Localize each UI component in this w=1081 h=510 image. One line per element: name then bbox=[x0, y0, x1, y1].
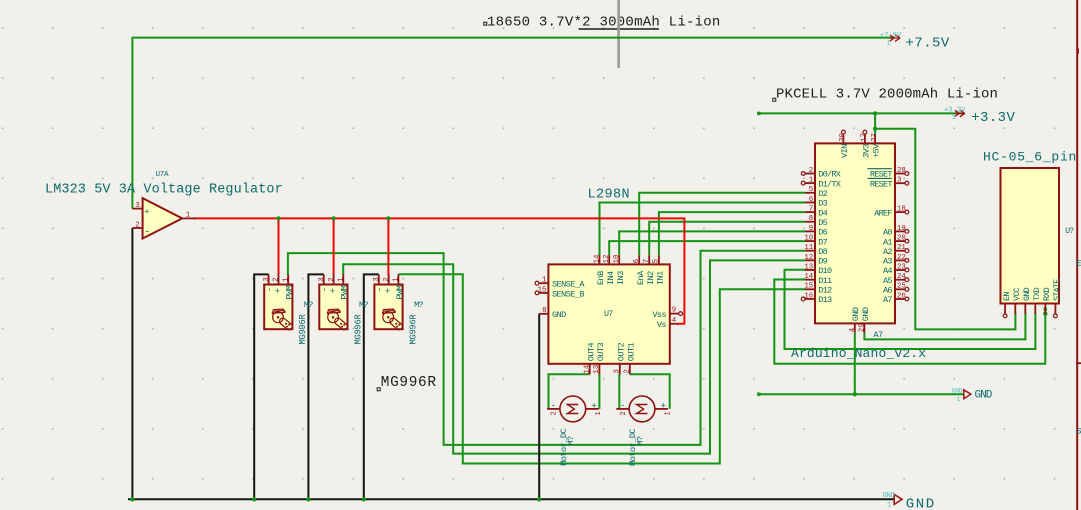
svg-text:IN4: IN4 bbox=[606, 271, 616, 285]
label MG996R (black) bbox=[377, 388, 380, 391]
wire VCC to HC-05 bbox=[875, 129, 1015, 330]
HC-05 pin RXD bbox=[1044, 304, 1046, 314]
Arduino bottom pin 29 GND bbox=[863, 323, 865, 332]
svg-text:GND: GND bbox=[952, 388, 963, 395]
wire D12 to servo3 PWM bbox=[398, 274, 805, 463]
svg-text:A5: A5 bbox=[883, 276, 892, 286]
svg-text:1: 1 bbox=[542, 277, 547, 285]
svg-text:1: 1 bbox=[338, 277, 346, 282]
svg-text:MG996R: MG996R bbox=[381, 375, 437, 391]
Arduino left pin 1 D1/TX bbox=[805, 182, 815, 184]
black GND rail bottom bbox=[128, 498, 894, 500]
wire D5 to IN2 bbox=[649, 222, 805, 255]
wire OUT2 to motor2 minus bbox=[618, 374, 620, 409]
Arduino left pin 12 D9 bbox=[805, 259, 815, 261]
svg-text:3: 3 bbox=[263, 277, 271, 281]
L298N bottom pin 13 OUT3 bbox=[598, 364, 600, 375]
wire D4 to IN1 bbox=[659, 212, 805, 255]
L298N top pin 14 EnB bbox=[599, 255, 601, 264]
svg-text:24: 24 bbox=[897, 273, 906, 281]
motor 2 pin 2 (-) bbox=[616, 408, 629, 410]
svg-text:IN2: IN2 bbox=[646, 271, 656, 285]
wire GND horizontal (to GND port) bbox=[759, 393, 963, 395]
svg-text:1: 1 bbox=[186, 211, 191, 219]
svg-text:1: 1 bbox=[887, 501, 891, 509]
svg-text:-: - bbox=[375, 287, 385, 292]
Arduino top pin 17 3V3 bbox=[864, 134, 866, 143]
svg-text:+: + bbox=[385, 287, 390, 297]
Arduino right pin 22 A3 bbox=[895, 259, 905, 261]
svg-text:3V3: 3V3 bbox=[862, 144, 872, 158]
svg-text:VIN: VIN bbox=[840, 144, 850, 158]
svg-text:3: 3 bbox=[373, 277, 381, 281]
svg-text:1: 1 bbox=[887, 40, 891, 48]
Arduino right pin 28 RESET bbox=[895, 173, 905, 175]
svg-text:D7: D7 bbox=[818, 237, 827, 247]
Arduino left pin 13 D10 bbox=[805, 269, 815, 271]
HC-05 pin GND bbox=[1024, 304, 1026, 314]
svg-text:S: S bbox=[1077, 427, 1081, 437]
svg-text:D2: D2 bbox=[818, 189, 827, 199]
svg-text:+7.5V: +7.5V bbox=[880, 32, 902, 40]
svg-text:4: 4 bbox=[672, 317, 677, 325]
svg-text:2: 2 bbox=[551, 411, 559, 415]
L298N top pin 6 EnA bbox=[638, 255, 640, 264]
Arduino left pin 15 D12 bbox=[805, 288, 815, 290]
svg-text:17: 17 bbox=[861, 133, 869, 142]
svg-text:D1/TX: D1/TX bbox=[818, 179, 840, 189]
svg-text:HC-05_6_pin: HC-05_6_pin bbox=[983, 149, 1077, 164]
red drop to servo2 + bbox=[333, 218, 335, 275]
L298N right pin 9 Vss bbox=[670, 313, 679, 315]
servo 2 pin 1 PWM bbox=[342, 274, 344, 284]
svg-text:18650 3.7V*2 3000mAh Li-ion: 18650 3.7V*2 3000mAh Li-ion bbox=[487, 15, 721, 31]
svg-text:3: 3 bbox=[897, 177, 901, 185]
wire D8 to servo1 PWM bbox=[288, 251, 805, 445]
svg-text:A7: A7 bbox=[883, 295, 892, 305]
svg-text:15: 15 bbox=[804, 283, 813, 291]
servo 1 pin 2 bbox=[278, 274, 280, 284]
svg-text:13: 13 bbox=[804, 263, 813, 271]
L298N bottom pin 3 OUT2 bbox=[619, 364, 621, 375]
svg-text:3: 3 bbox=[318, 277, 326, 281]
HC-05 body bbox=[1001, 168, 1060, 304]
Arduino left pin 10 D7 bbox=[805, 240, 815, 242]
svg-text:D5: D5 bbox=[818, 218, 827, 228]
Arduino left pin 7 D4 bbox=[805, 211, 815, 213]
svg-text:25: 25 bbox=[897, 283, 906, 291]
svg-text:TXD: TXD bbox=[1032, 287, 1042, 301]
wire OUT4 to motor1 minus bbox=[549, 374, 590, 409]
L298N top pin 10 IN3 bbox=[618, 255, 620, 264]
svg-text:U7: U7 bbox=[604, 309, 613, 319]
svg-text:VCC: VCC bbox=[1012, 287, 1022, 301]
svg-text:L298N: L298N bbox=[588, 188, 631, 203]
right edge pin stub bbox=[1076, 362, 1081, 364]
svg-text:GND: GND bbox=[851, 307, 861, 321]
svg-text:OUT2: OUT2 bbox=[616, 343, 626, 362]
svg-text:-: - bbox=[551, 400, 557, 411]
Arduino right pin 26 A7 bbox=[895, 298, 905, 300]
wire +7.5V net (green) bbox=[132, 38, 894, 209]
motor 2 pin 1 (+) bbox=[655, 408, 668, 410]
Arduino top pin 27 +5V bbox=[874, 134, 876, 143]
svg-text:A4: A4 bbox=[883, 266, 892, 276]
servo 1 pin 1 PWM bbox=[287, 274, 289, 284]
junction +3.3V/+5V bbox=[873, 111, 877, 115]
svg-text:6: 6 bbox=[809, 196, 813, 204]
svg-text:GND: GND bbox=[1022, 287, 1032, 301]
svg-text:OUT3: OUT3 bbox=[596, 343, 606, 362]
svg-text:28: 28 bbox=[897, 167, 906, 175]
Arduino left pin 8 D5 bbox=[805, 221, 815, 223]
svg-text:-: - bbox=[320, 287, 330, 292]
Arduino left pin 14 D11 bbox=[805, 279, 815, 281]
svg-text:Motor_DC: Motor_DC bbox=[628, 429, 638, 466]
motor Motor_DC M? #2 bbox=[629, 396, 655, 422]
Arduino right pin 20 A1 bbox=[895, 240, 905, 242]
wire GND vertical from Arduino pin4 bbox=[854, 333, 856, 394]
svg-text:+5V: +5V bbox=[872, 143, 882, 158]
svg-text:RXD: RXD bbox=[1042, 287, 1052, 301]
svg-text:2: 2 bbox=[273, 277, 281, 281]
svg-text:A1: A1 bbox=[883, 237, 892, 247]
wire D2 to EnA bbox=[639, 193, 805, 255]
junction red bus 3 bbox=[386, 216, 390, 220]
wire +3.3V net (green) bbox=[759, 112, 965, 114]
svg-text:Arduino_Nano_v2.x: Arduino_Nano_v2.x bbox=[791, 346, 926, 361]
servo MG996R M? #1 body bbox=[264, 285, 292, 330]
wire D6 to IN3 bbox=[619, 231, 805, 255]
svg-text:1: 1 bbox=[393, 277, 401, 282]
HC-05 pin EN bbox=[1004, 304, 1006, 314]
svg-text:Vss: Vss bbox=[652, 310, 666, 320]
Arduino Nano body bbox=[815, 143, 895, 323]
red bus from op-amp output bbox=[194, 218, 684, 323]
svg-text:GND: GND bbox=[552, 310, 566, 320]
svg-text:27: 27 bbox=[871, 133, 879, 142]
power port GND (bottom) bbox=[894, 494, 902, 504]
svg-text:EnB: EnB bbox=[596, 271, 606, 285]
svg-text:9: 9 bbox=[809, 225, 813, 233]
svg-text:+: + bbox=[660, 400, 666, 411]
Arduino right pin 25 A6 bbox=[895, 288, 905, 290]
svg-text:EN: EN bbox=[1002, 292, 1012, 301]
op-amp pin 1 output bbox=[182, 217, 196, 219]
wire GND Arduino pin29 to HC-05 GND bbox=[864, 313, 1025, 339]
servo 2 pin 2 bbox=[333, 274, 335, 284]
svg-text:PWM: PWM bbox=[285, 285, 295, 299]
svg-text:M?: M? bbox=[414, 300, 423, 310]
svg-text:+: + bbox=[591, 400, 597, 411]
title text 18650 battery bbox=[484, 22, 487, 25]
svg-text:A6: A6 bbox=[883, 286, 892, 296]
svg-text:D12: D12 bbox=[818, 286, 832, 296]
svg-text:2: 2 bbox=[383, 277, 391, 281]
svg-text:U7A: U7A bbox=[156, 171, 170, 179]
svg-text:10: 10 bbox=[804, 234, 813, 242]
svg-text:8: 8 bbox=[809, 215, 813, 223]
svg-text:2: 2 bbox=[809, 167, 813, 175]
junction +5V/VCC bbox=[873, 127, 877, 131]
black wire servo2 pin3 bbox=[308, 274, 323, 499]
servo 3 horn icon bbox=[382, 309, 404, 331]
svg-text:-: - bbox=[265, 287, 275, 292]
Arduino top pin 30 VIN bbox=[842, 134, 844, 143]
svg-text:+7.5V: +7.5V bbox=[906, 36, 950, 52]
black wire L298N GND pin8 bbox=[538, 314, 540, 500]
servo 3 pin 2 bbox=[388, 274, 390, 284]
servo 3 pin 3 bbox=[378, 274, 380, 284]
svg-text:3: 3 bbox=[135, 202, 139, 210]
svg-text:D0/RX: D0/RX bbox=[818, 170, 840, 180]
svg-text:STATE: STATE bbox=[1052, 279, 1062, 301]
motor Motor_DC M? #1 bbox=[560, 396, 586, 422]
Arduino right pin 23 A4 bbox=[895, 269, 905, 271]
wire +5V feed bbox=[874, 113, 876, 134]
black wire op-amp pin2 to GND rail bbox=[131, 228, 133, 499]
title text PKCELL battery bbox=[773, 98, 776, 101]
svg-text:9: 9 bbox=[672, 307, 676, 315]
svg-text:30: 30 bbox=[839, 133, 847, 142]
svg-text:4: 4 bbox=[849, 327, 857, 332]
svg-text:Motor_DC: Motor_DC bbox=[559, 429, 569, 466]
svg-text:LM323 5V 3A Voltage Regulator: LM323 5V 3A Voltage Regulator bbox=[45, 183, 283, 198]
L298N top pin 12 IN4 bbox=[608, 255, 610, 264]
motor 1 pin 2 (-) bbox=[547, 408, 560, 410]
Arduino right pin 3 RESET bbox=[895, 182, 905, 184]
motor 1 pin 1 (+) bbox=[586, 408, 599, 410]
svg-text:M?: M? bbox=[635, 436, 645, 446]
black wire servo3 pin3 bbox=[364, 274, 379, 499]
svg-text:A7: A7 bbox=[873, 330, 883, 340]
wire D11 to RXD bbox=[774, 280, 1045, 364]
Arduino right pin 24 A5 bbox=[895, 279, 905, 281]
servo 2 pin 3 bbox=[323, 274, 325, 284]
Arduino left pin 16 D13 bbox=[805, 298, 815, 300]
svg-text:3: 3 bbox=[614, 369, 622, 373]
svg-text:M?: M? bbox=[566, 436, 576, 446]
svg-text:19: 19 bbox=[897, 225, 906, 233]
svg-text:D13: D13 bbox=[818, 295, 832, 305]
svg-text:2: 2 bbox=[624, 369, 632, 373]
servo MG996R M? #3 body bbox=[374, 285, 402, 330]
svg-text:AREF: AREF bbox=[874, 208, 892, 218]
svg-text:1: 1 bbox=[664, 411, 672, 415]
svg-text:D6: D6 bbox=[818, 228, 827, 238]
Arduino bottom pin 4 GND bbox=[854, 323, 856, 332]
L298N bottom pin 2 OUT1 bbox=[629, 364, 631, 375]
L298N right pin 4 Vs bbox=[670, 323, 679, 325]
svg-text:14: 14 bbox=[584, 364, 592, 373]
junction RXD bbox=[1043, 312, 1047, 316]
svg-text:Vs: Vs bbox=[657, 320, 667, 330]
svg-text:26: 26 bbox=[897, 292, 906, 300]
svg-text:20: 20 bbox=[897, 235, 906, 243]
svg-text:1: 1 bbox=[952, 114, 956, 122]
power port GND (mid) bbox=[964, 390, 971, 399]
svg-text:GND: GND bbox=[883, 492, 895, 500]
servo 3 pin 1 PWM bbox=[397, 274, 399, 284]
black wire servo1 pin3 bbox=[254, 274, 268, 499]
svg-text:12: 12 bbox=[603, 255, 611, 264]
wire D10 to TXD bbox=[785, 270, 1036, 349]
svg-text:2: 2 bbox=[328, 277, 336, 281]
wire D3 to EnB bbox=[600, 203, 806, 256]
svg-text:A2: A2 bbox=[883, 247, 892, 257]
svg-text:18: 18 bbox=[897, 206, 906, 214]
svg-text:D3: D3 bbox=[818, 199, 827, 209]
svg-text:2: 2 bbox=[135, 222, 139, 230]
L298N top pin 7 IN2 bbox=[648, 255, 650, 264]
svg-text:GND: GND bbox=[861, 307, 871, 321]
L298N bottom pin 14 OUT4 bbox=[589, 364, 591, 375]
svg-text:PWM: PWM bbox=[340, 285, 350, 299]
HC-05 pin TXD bbox=[1034, 304, 1036, 314]
svg-text:IN3: IN3 bbox=[616, 271, 626, 285]
svg-text:11: 11 bbox=[804, 244, 813, 252]
red drop to servo1 + bbox=[278, 218, 280, 275]
svg-text:10: 10 bbox=[613, 255, 621, 264]
svg-text:23: 23 bbox=[897, 263, 906, 271]
svg-text:GND: GND bbox=[906, 496, 936, 510]
L298N left pin 15 SENSE_B bbox=[539, 292, 548, 294]
svg-text:16: 16 bbox=[804, 292, 813, 300]
Arduino left pin 6 D3 bbox=[805, 201, 815, 203]
junction red bus 1 bbox=[276, 216, 280, 220]
power port +7.5V bbox=[890, 35, 901, 42]
wire OUT1 to motor2 plus bbox=[630, 374, 670, 409]
junction red bus 2 bbox=[331, 216, 335, 220]
svg-text:EnA: EnA bbox=[636, 270, 646, 285]
svg-text:D4: D4 bbox=[818, 208, 827, 218]
svg-text:D11: D11 bbox=[818, 276, 832, 286]
power port +3.3V bbox=[955, 110, 965, 117]
svg-text:U?: U? bbox=[1065, 227, 1074, 236]
op-amp U7A LM323 bbox=[143, 198, 183, 238]
L298N left pin 8 GND bbox=[539, 313, 548, 315]
servo MG996R M? #2 body bbox=[319, 285, 347, 330]
svg-text:1: 1 bbox=[957, 396, 961, 403]
svg-text:+: + bbox=[144, 208, 149, 218]
svg-text:SENSE_B: SENSE_B bbox=[552, 289, 584, 299]
junction GND net bbox=[853, 392, 857, 396]
L298N top pin 5 IN1 bbox=[658, 255, 660, 264]
L298N U7 body bbox=[548, 264, 669, 363]
svg-text:6: 6 bbox=[633, 259, 641, 263]
svg-text:5: 5 bbox=[653, 259, 661, 263]
HC-05 pin STATE bbox=[1054, 304, 1056, 314]
svg-text:OUT1: OUT1 bbox=[626, 343, 636, 362]
svg-text:14: 14 bbox=[593, 254, 601, 263]
svg-text:D10: D10 bbox=[818, 266, 832, 276]
servo 1 pin 3 bbox=[268, 274, 270, 284]
svg-text:PWM: PWM bbox=[395, 285, 405, 299]
wire OUT3 to motor1 plus bbox=[598, 374, 600, 409]
svg-text:-: - bbox=[144, 227, 150, 238]
wire D9 to servo2 PWM bbox=[343, 260, 805, 453]
Arduino left pin 2 D0/RX bbox=[805, 173, 815, 175]
svg-text:7: 7 bbox=[643, 259, 651, 263]
svg-text:21: 21 bbox=[897, 244, 906, 252]
svg-text:15: 15 bbox=[538, 286, 547, 294]
wire D7 to IN4 bbox=[609, 241, 805, 255]
svg-text:MG996R: MG996R bbox=[353, 314, 363, 345]
svg-text:22: 22 bbox=[897, 254, 906, 262]
svg-text:+3.3V: +3.3V bbox=[971, 110, 1015, 126]
svg-text:1: 1 bbox=[595, 411, 603, 415]
Arduino right pin 18 AREF bbox=[895, 211, 905, 213]
svg-text:12: 12 bbox=[804, 254, 813, 262]
servo 1 horn icon bbox=[272, 309, 294, 331]
svg-text:IN1: IN1 bbox=[656, 271, 666, 285]
svg-text:13: 13 bbox=[593, 365, 601, 374]
svg-text:A3: A3 bbox=[883, 257, 892, 267]
svg-text:8: 8 bbox=[542, 307, 546, 315]
Arduino left pin 5 D2 bbox=[805, 192, 815, 194]
Arduino left pin 9 D6 bbox=[805, 230, 815, 232]
svg-text:+3.3V: +3.3V bbox=[944, 106, 966, 114]
svg-text:MG996R: MG996R bbox=[408, 314, 418, 345]
svg-text:GND: GND bbox=[975, 389, 993, 401]
svg-text:5: 5 bbox=[809, 186, 813, 194]
adjacent sheet border (right edge) bbox=[1076, 0, 1078, 510]
op-amp pin 3 (+) bbox=[132, 208, 142, 210]
svg-text:PKCELL 3.7V 2000mAh Li-ion: PKCELL 3.7V 2000mAh Li-ion bbox=[776, 87, 998, 103]
svg-text:SENSE_A: SENSE_A bbox=[552, 280, 585, 290]
svg-text:+: + bbox=[275, 287, 280, 297]
svg-text:7: 7 bbox=[809, 206, 813, 214]
svg-text:RESET: RESET bbox=[870, 179, 892, 189]
Arduino right pin 21 A2 bbox=[895, 250, 905, 252]
svg-text:A0: A0 bbox=[883, 228, 892, 238]
svg-text:+: + bbox=[330, 287, 335, 297]
svg-text:14: 14 bbox=[804, 273, 813, 281]
right edge tick bbox=[1077, 49, 1079, 54]
svg-text:D8: D8 bbox=[818, 247, 827, 257]
svg-text:-: - bbox=[620, 400, 626, 411]
HC-05 pin VCC bbox=[1014, 304, 1016, 314]
op-amp pin 2 (-) bbox=[132, 227, 142, 229]
svg-text:2: 2 bbox=[620, 411, 628, 415]
Arduino left pin 11 D8 bbox=[805, 250, 815, 252]
svg-text:D9: D9 bbox=[818, 257, 827, 267]
junctions on GND rail bbox=[130, 497, 134, 501]
svg-text:M?: M? bbox=[304, 300, 313, 310]
svg-text:E: E bbox=[1077, 259, 1081, 269]
grey leader line bbox=[617, 0, 620, 68]
svg-text:1: 1 bbox=[809, 177, 814, 185]
svg-text:OUT4: OUT4 bbox=[586, 343, 596, 362]
svg-text:1: 1 bbox=[282, 277, 290, 282]
red drop to servo3 + bbox=[387, 218, 389, 275]
svg-text:29: 29 bbox=[858, 323, 866, 332]
L298N left pin 1 SENSE_A bbox=[539, 282, 548, 284]
servo 2 horn icon bbox=[327, 309, 349, 331]
svg-text:MG996R: MG996R bbox=[298, 314, 308, 345]
svg-text:M?: M? bbox=[359, 300, 368, 310]
Arduino right pin 19 A0 bbox=[895, 230, 905, 232]
